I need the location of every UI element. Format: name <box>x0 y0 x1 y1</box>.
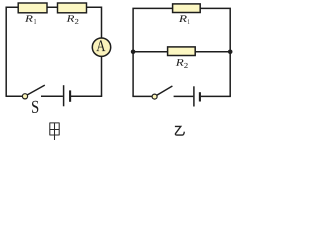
resistor R1 (right circuit) <box>173 4 201 13</box>
wire: right circuit middle branch <box>133 51 230 53</box>
wire: right circuit outer loop (left, top, right sides) <box>133 8 230 96</box>
wire: right circuit bottom, switch fixed contact to battery <box>174 95 194 97</box>
ammeter A (left circuit) <box>92 38 110 56</box>
wire: left circuit bottom, left corner to switch <box>6 95 23 97</box>
switch (right circuit): lever <box>157 86 173 95</box>
resistor R1 (left circuit) <box>18 3 47 13</box>
battery (right circuit): long plate <box>193 86 195 106</box>
label S <box>32 101 38 113</box>
wire: left circuit outer loop (left, top, right sides) <box>6 7 101 96</box>
label R2 (right circuit) <box>176 59 184 66</box>
resistor R2 (right circuit) <box>168 47 196 56</box>
resistor R2 (left circuit) <box>58 3 87 13</box>
wire: right circuit bottom, battery to right corner <box>201 95 231 97</box>
label R1 (right circuit) <box>179 15 187 22</box>
battery (left circuit): short plate <box>69 90 71 101</box>
switch S (left circuit): pivot circle <box>22 94 27 99</box>
wire: left circuit bottom, battery to right corner <box>71 95 102 97</box>
label R1 (left circuit) <box>25 15 33 21</box>
node: right junction dot <box>228 50 233 55</box>
switch (right circuit): pivot circle <box>152 94 157 99</box>
caption 乙 <box>175 126 184 135</box>
caption 甲 <box>50 123 60 140</box>
label R2 (left circuit) <box>67 15 75 22</box>
battery (right circuit): short plate <box>199 92 201 101</box>
battery (left circuit): long plate <box>63 85 65 106</box>
switch S (left circuit): lever <box>27 85 45 95</box>
node: left junction dot <box>131 50 136 55</box>
wire: right circuit bottom, left corner to switch <box>132 95 152 97</box>
wire: left circuit bottom, switch fixed contact to battery <box>41 95 63 97</box>
